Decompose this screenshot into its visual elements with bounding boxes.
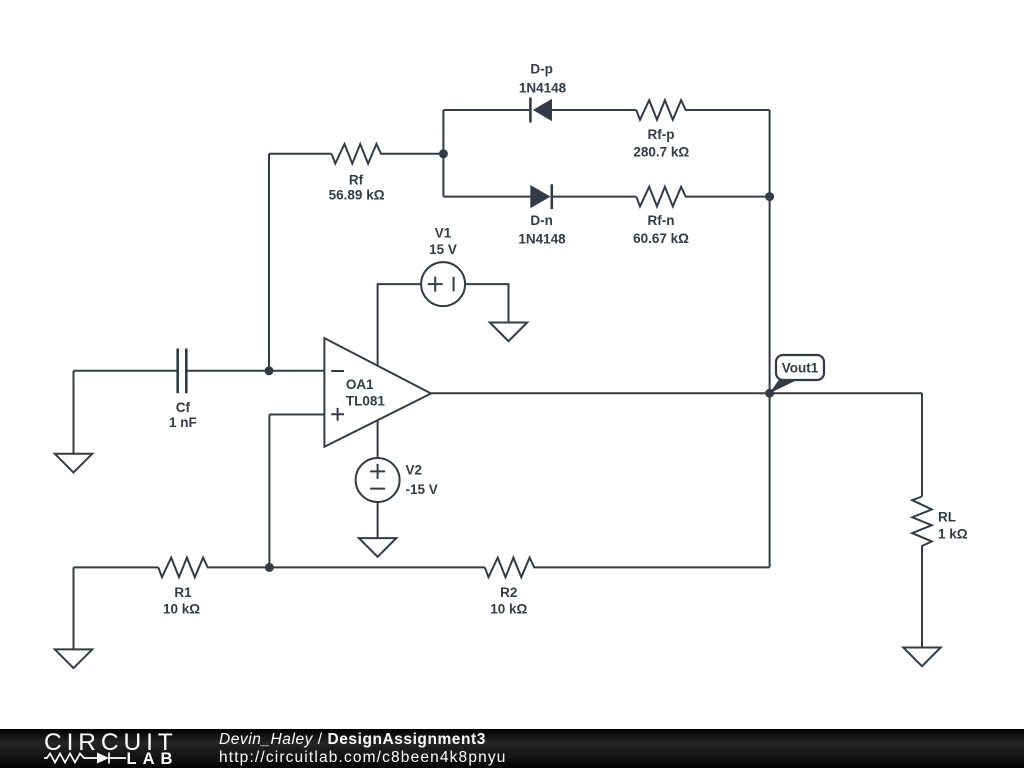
svg-text:LAB: LAB xyxy=(127,750,179,768)
svg-text:280.7 kΩ: 280.7 kΩ xyxy=(633,144,689,159)
svg-text:http://circuitlab.com/c8been4k: http://circuitlab.com/c8been4k8pnyu xyxy=(219,749,507,766)
svg-text:Devin_Haley / DesignAssignment: Devin_Haley / DesignAssignment3 xyxy=(219,731,486,748)
svg-text:V1: V1 xyxy=(435,225,452,240)
svg-text:56.89 kΩ: 56.89 kΩ xyxy=(329,188,385,203)
svg-text:Vout1: Vout1 xyxy=(782,360,819,375)
svg-text:1 nF: 1 nF xyxy=(169,415,197,430)
svg-text:60.67 kΩ: 60.67 kΩ xyxy=(633,231,689,246)
svg-text:-15 V: -15 V xyxy=(406,482,438,497)
svg-text:15 V: 15 V xyxy=(429,242,457,257)
svg-text:R1: R1 xyxy=(174,585,192,600)
svg-text:1N4148: 1N4148 xyxy=(518,232,566,247)
svg-text:D-p: D-p xyxy=(530,62,553,77)
svg-text:Rf-p: Rf-p xyxy=(648,127,675,142)
svg-text:10 kΩ: 10 kΩ xyxy=(490,602,527,617)
svg-text:R2: R2 xyxy=(500,585,517,600)
svg-text:1N4148: 1N4148 xyxy=(519,81,567,96)
svg-text:Rf: Rf xyxy=(349,173,364,188)
svg-text:OA1: OA1 xyxy=(346,377,374,392)
svg-text:Cf: Cf xyxy=(176,400,191,415)
svg-text:V2: V2 xyxy=(406,463,423,478)
svg-text:RL: RL xyxy=(938,510,956,525)
svg-text:10 kΩ: 10 kΩ xyxy=(163,602,200,617)
svg-text:1 kΩ: 1 kΩ xyxy=(938,527,968,542)
svg-text:TL081: TL081 xyxy=(346,394,386,409)
svg-text:D-n: D-n xyxy=(530,213,553,228)
svg-text:Rf-n: Rf-n xyxy=(648,213,675,228)
